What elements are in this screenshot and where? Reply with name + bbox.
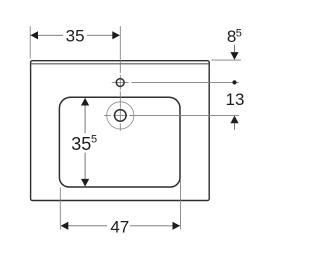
- dim 35.5 up arrowhead: [81, 98, 89, 106]
- svg-text:35: 35: [66, 26, 85, 45]
- dim 47 left arrowhead: [61, 222, 69, 230]
- washbasin outer outline (top view): [31, 61, 210, 201]
- dim 13 up arrowhead: [230, 116, 238, 124]
- dim 35 line left segment: [31, 34, 63, 36]
- small hole horizontal center line / extension to dim 13: [112, 81, 239, 83]
- dim 47 line left segment: [61, 225, 107, 227]
- tap hole inner circle: [115, 110, 127, 122]
- dimension 35 (left edge to hole center): [30, 26, 120, 45]
- basin bowl outline: [59, 97, 180, 187]
- dim 47 right extension line: [180, 178, 182, 230]
- dim 47 left extension line: [59, 187, 61, 229]
- dimension 13 (small hole to tap hole center): [226, 80, 245, 130]
- dim 35.5 line lower segment: [84, 153, 86, 186]
- tap hole outer circle: [107, 102, 134, 129]
- dim 35.5 line upper segment: [84, 99, 86, 134]
- svg-text:5: 5: [91, 133, 97, 145]
- vertical center line through tap holes: [119, 26, 121, 131]
- svg-text:35: 35: [71, 134, 91, 154]
- svg-text:5: 5: [236, 28, 242, 40]
- dimension 47 (basin width): [61, 217, 180, 236]
- dim 35 right arrowhead: [112, 31, 120, 39]
- dim 35 line right segment: [87, 34, 120, 36]
- extension line at left edge for dim 35: [29, 26, 31, 58]
- small hole on deck: [116, 79, 124, 87]
- dim 47 line right segment: [130, 225, 180, 227]
- svg-text:13: 13: [226, 90, 245, 109]
- dim 8.5 leader stem: [234, 45, 236, 53]
- dim 8.5 extension line from top-right corner: [212, 59, 241, 61]
- dimension 35.5 (basin depth, vertical): [71, 98, 97, 187]
- back rim inner edge line: [31, 63, 208, 65]
- dim 35.5 down arrowhead: [81, 179, 89, 187]
- tap hole horizontal center line / extension to dim 13: [104, 114, 239, 116]
- dim 8.5 down arrowhead: [230, 52, 238, 60]
- dim 47 right arrowhead: [173, 222, 181, 230]
- dim 13 leader stem: [234, 123, 236, 130]
- svg-text:47: 47: [110, 217, 129, 236]
- dim 13 dot terminator: [232, 80, 236, 84]
- dim 35 left arrowhead: [30, 31, 38, 39]
- dimension 8.5 (top edge to small hole center): [212, 27, 242, 60]
